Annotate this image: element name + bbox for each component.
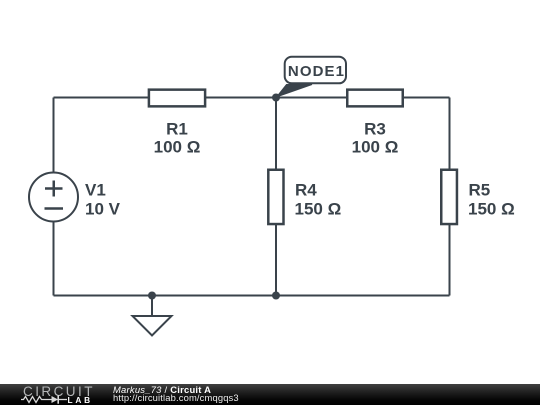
- wire middle rail lower (R4 bottom to bottom rail): [275, 225, 277, 296]
- resistor R4 (box): [268, 170, 283, 224]
- node NODE1 flag bubble: [285, 57, 346, 84]
- svg-text:R3: R3: [364, 119, 386, 138]
- CircuitLab logo resistor zigzag and diode glyph: [0, 384, 110, 405]
- svg-text:150 Ω: 150 Ω: [295, 200, 342, 219]
- footer title text: [113, 385, 211, 394]
- ground symbol: [133, 296, 172, 336]
- wire bottom rail: [54, 295, 450, 297]
- svg-text:NODE1: NODE1: [288, 63, 345, 80]
- svg-text:100 Ω: 100 Ω: [154, 138, 201, 157]
- junction dot bottom middle (R4 bottom): [272, 292, 280, 300]
- CircuitLab logo wordmark CIRCUIT: [23, 385, 95, 399]
- svg-text:150 Ω: 150 Ω: [468, 200, 515, 219]
- wire left rail upper (top corner down to V1 circle): [53, 98, 55, 174]
- CircuitLab logo wordmark LAB: [68, 396, 93, 404]
- wire NODE1 junction to R3 left terminal: [276, 97, 346, 99]
- footer bar: [0, 384, 540, 405]
- wire top-left horizontal (V1 top to R1 left terminal): [54, 97, 150, 99]
- resistor R5 (box): [441, 170, 457, 224]
- resistor R3 (box): [347, 90, 403, 107]
- junction dot at NODE1: [272, 94, 280, 102]
- wire R3 right terminal to top-right corner: [404, 97, 450, 99]
- resistor R1 (box): [149, 90, 205, 107]
- wire right rail lower (R5 bottom to bottom rail): [449, 225, 451, 296]
- svg-text:V1: V1: [85, 181, 106, 200]
- svg-text:R5: R5: [469, 181, 491, 200]
- svg-text:100 Ω: 100 Ω: [352, 138, 399, 157]
- svg-text:10 V: 10 V: [85, 200, 121, 219]
- wire right rail upper (corner to R5 top): [449, 98, 451, 170]
- wire left rail lower (V1 bottom to bottom-left corner): [53, 222, 55, 296]
- wire middle rail upper (NODE1 junction to R4 top): [275, 98, 277, 170]
- svg-text:R4: R4: [295, 181, 317, 200]
- wire R1 right terminal to NODE1 junction: [206, 97, 276, 99]
- voltage source V1 (circle with plus and minus): [29, 173, 78, 222]
- junction dot at ground connection: [148, 292, 156, 300]
- svg-text:R1: R1: [166, 119, 188, 138]
- node NODE1 flag callout tail: [277, 85, 313, 98]
- footer url text: [113, 393, 239, 402]
